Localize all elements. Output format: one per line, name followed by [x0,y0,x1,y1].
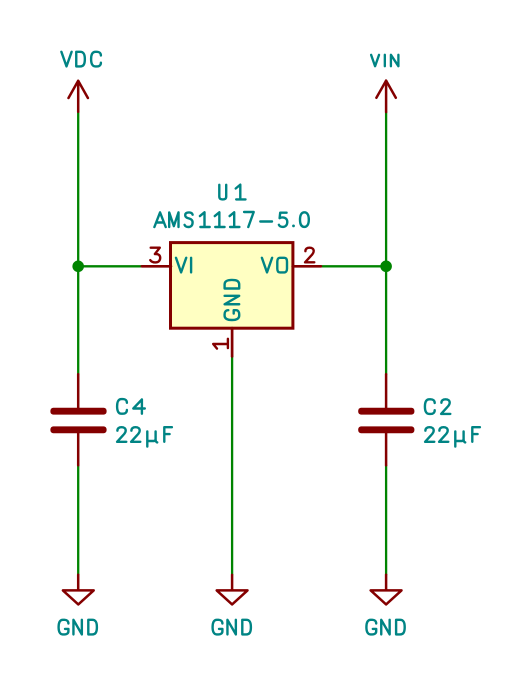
label GND right [366,620,404,635]
wire VIN vertical rail [385,112,387,374]
label C2 [425,399,450,414]
pin number 2 [305,248,314,263]
wire VDC vertical rail [77,112,79,375]
power symbol VIN arrow [376,81,395,112]
label U1 [219,185,245,200]
wire junction-left to pin 3 [78,265,142,267]
junction VDC/C4 [72,261,84,273]
pin name VO [262,258,287,273]
value AMS1117-5.0 [154,212,308,227]
wire pin 1 to ground middle [231,356,233,575]
junction VIN/C2 [380,261,392,273]
label C4 [117,399,145,414]
wire pin 2 to junction-right [321,265,386,267]
pin 2 VO [293,265,321,268]
capacitor C2 [358,408,414,433]
wire C2 to ground right [385,465,387,575]
pin number 1 [213,339,228,349]
power symbol VDC arrow [69,81,88,112]
ground symbol left [63,575,94,605]
regulator U1 body [171,243,293,329]
value 22µF C4 [117,427,172,446]
value 22µF C2 [425,427,480,446]
pin name GND [225,280,240,320]
pin name VI [176,258,191,273]
wire C4 to ground left [77,465,79,575]
net label VDC [61,52,101,67]
ground symbol middle [217,575,248,605]
pin number 3 [150,248,160,263]
label GND left [59,620,97,635]
ground symbol right [371,575,402,605]
capacitor C4 [50,408,106,433]
pin 3 VI [142,265,171,268]
net label VIN [371,55,398,66]
pin 1 GND [231,328,234,356]
label GND middle [213,620,251,635]
